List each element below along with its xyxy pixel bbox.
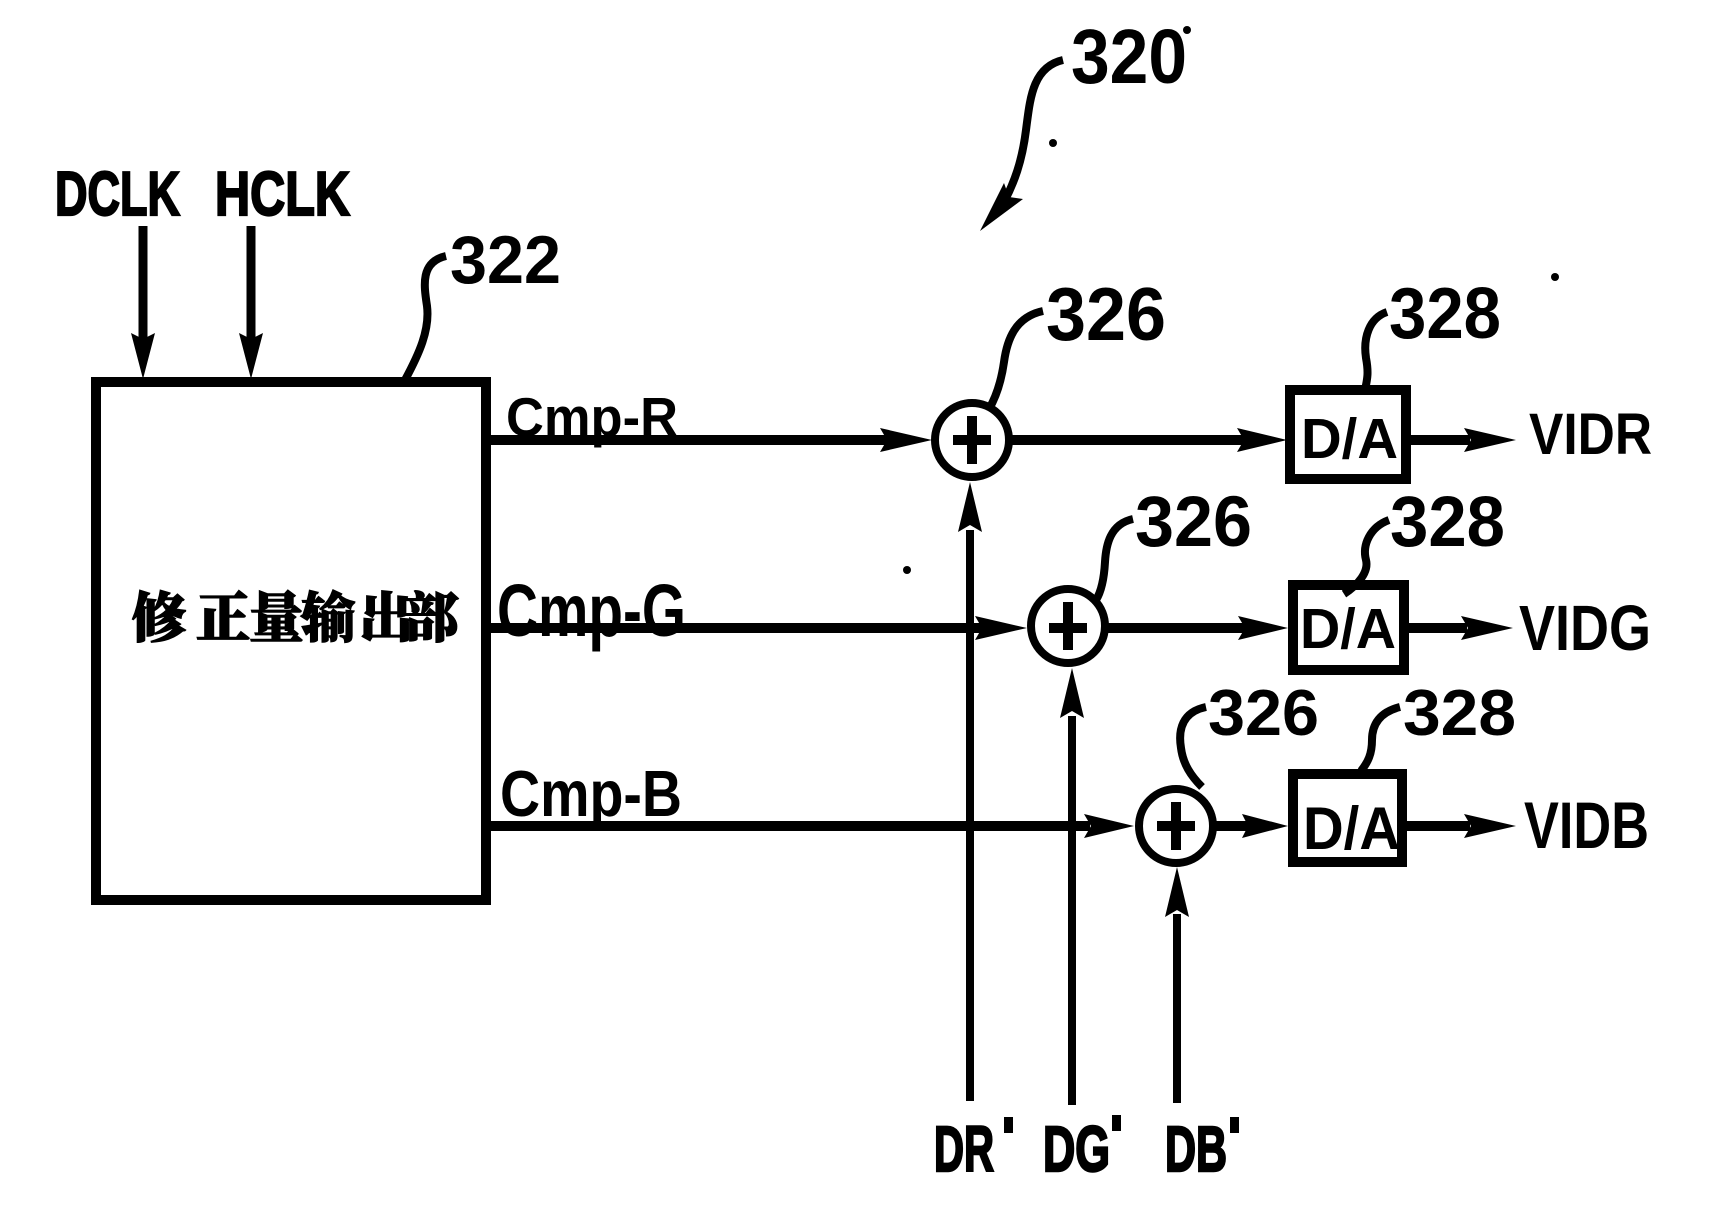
svg-text:326: 326 [1208,676,1319,749]
svg-text:326: 326 [1135,483,1252,562]
svg-text:DB: DB [1165,1113,1227,1185]
svg-text:D/A: D/A [1301,407,1398,471]
svg-text:HCLK: HCLK [215,160,350,229]
svg-text:DCLK: DCLK [55,160,180,229]
svg-text:328: 328 [1389,274,1501,354]
svg-text:320: 320 [1071,14,1187,100]
svg-text:D/A: D/A [1300,597,1396,661]
svg-text:VIDB: VIDB [1524,788,1649,862]
svg-text:Cmp-G: Cmp-G [497,569,686,652]
svg-text:328: 328 [1390,483,1505,562]
svg-text:VIDG: VIDG [1519,592,1651,664]
svg-text:VIDR: VIDR [1529,402,1652,467]
svg-text:DR: DR [934,1113,994,1185]
svg-text:326: 326 [1046,272,1166,356]
svg-text:D/A: D/A [1303,795,1400,862]
svg-text:DG: DG [1043,1113,1110,1185]
svg-text:322: 322 [450,222,561,298]
svg-text:328: 328 [1403,676,1516,749]
svg-text:Cmp-B: Cmp-B [500,757,682,830]
